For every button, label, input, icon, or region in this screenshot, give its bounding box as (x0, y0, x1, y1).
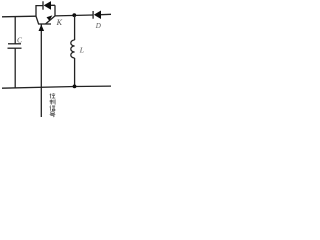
inductor L top lead (74, 15, 76, 40)
label control-signal text (hand-drawn CJK glyphs, vertical) (50, 93, 56, 117)
gate arrowhead (39, 25, 45, 31)
capacitor C bottom lead (14, 48, 16, 88)
svg-text:C: C (17, 36, 23, 45)
char hao (signal) (50, 112, 56, 117)
capacitor C bottom plate (8, 47, 22, 49)
transistor K emitter diagonal (46, 16, 56, 24)
capacitor C top lead (14, 17, 16, 44)
anti-parallel diode loop right stub (51, 5, 55, 16)
diode D cathode bar (92, 11, 94, 19)
capacitor C top plate (8, 43, 21, 45)
char xin (signal) (50, 106, 55, 111)
char zhi (control) (50, 99, 56, 104)
anti-parallel diode triangle (44, 1, 51, 10)
svg-text:K: K (56, 18, 63, 27)
wire top-right rail (D to edge) (101, 13, 111, 15)
wire gate lead (control) (40, 24, 42, 117)
wire top-left rail (2, 15, 36, 18)
inductor L bottom lead (74, 58, 76, 87)
wire top-middle rail (K to D) (55, 14, 93, 17)
char kong (control) (50, 93, 56, 98)
svg-text:L: L (79, 45, 84, 54)
diode D triangle (94, 11, 101, 20)
anti-parallel diode loop left stub (36, 6, 43, 17)
transistor K base bar (38, 23, 51, 25)
node top junction dot (72, 13, 76, 17)
wire bottom rail (2, 86, 111, 88)
transistor K emitter arrowhead (47, 15, 53, 20)
transistor K collector diagonal (36, 16, 39, 24)
svg-text:D: D (95, 22, 101, 30)
inductor L coil (71, 40, 75, 58)
anti-parallel diode cathode bar (42, 1, 44, 9)
node bottom junction dot (73, 85, 77, 89)
